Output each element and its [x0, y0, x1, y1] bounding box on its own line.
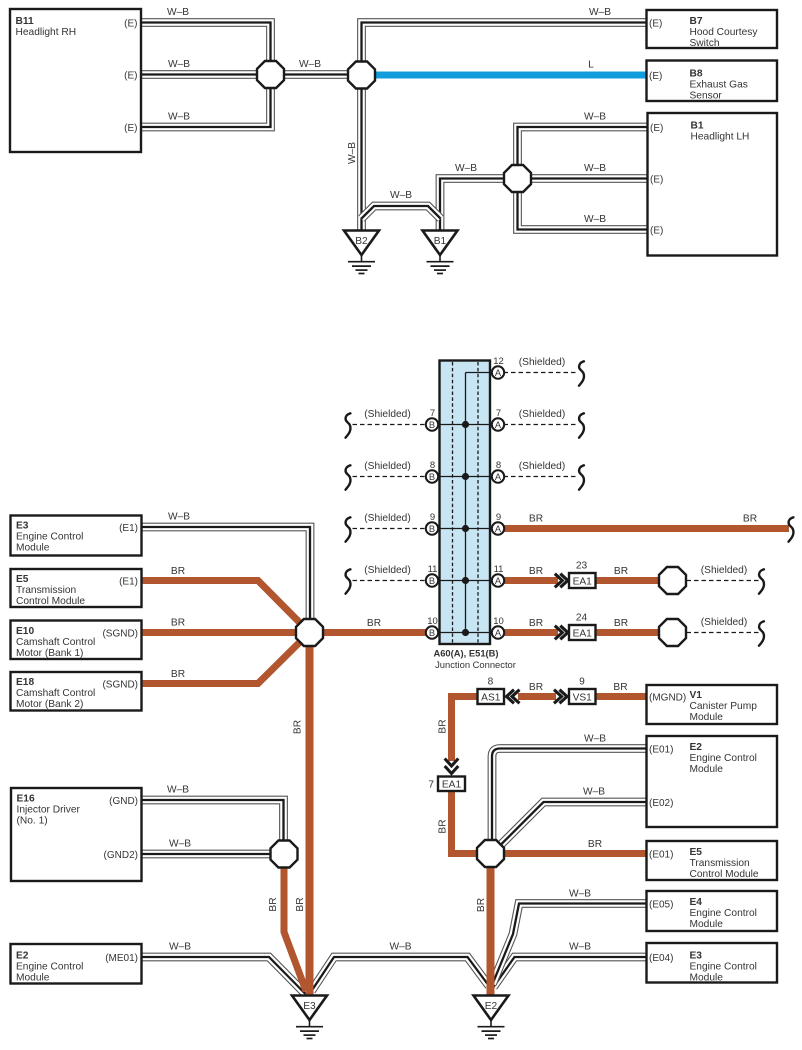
svg-text:W–B: W–B [455, 163, 477, 174]
connector VS1 pin 9 [554, 690, 567, 704]
wire BR connector EA1-7 to splice S6 [452, 790, 480, 854]
svg-text:(E01): (E01) [649, 744, 673, 755]
svg-text:(GND2): (GND2) [104, 850, 138, 861]
svg-text:E2: E2 [16, 951, 29, 962]
svg-text:(E04): (E04) [649, 953, 673, 964]
svg-text:Sensor: Sensor [690, 91, 723, 102]
ground E3 [292, 996, 327, 1039]
wire BR junction connector A9 to right edge [504, 525, 790, 532]
wire W-B ground E3 to ground E2 [312, 957, 490, 991]
svg-text:BR: BR [171, 669, 185, 680]
wire BR splice S6 down to ground E2 [487, 866, 495, 996]
component V1 Canister Pump Module [647, 685, 778, 724]
svg-text:V1: V1 [690, 690, 703, 701]
wire W-B link ground B2 to ground B1 [362, 206, 441, 219]
component B11 Headlight RH [10, 9, 141, 152]
svg-text:11: 11 [428, 564, 438, 575]
wire W-B E16 (GND2) to splice S5 [142, 853, 272, 855]
wire W-B splice S2 to B7 (E) [362, 23, 648, 62]
shielded lead after splice row 632 [687, 617, 765, 646]
svg-text:B: B [429, 472, 435, 482]
wire W-B E3 (E1) to splice S4 [142, 527, 311, 620]
junction connector pin B9 [426, 512, 438, 535]
svg-text:(SGND): (SGND) [102, 679, 138, 690]
svg-text:Module: Module [16, 543, 50, 554]
junction connector pin B10 [426, 616, 438, 639]
svg-text:Engine Control: Engine Control [16, 962, 83, 973]
svg-text:E2: E2 [485, 1001, 498, 1012]
svg-text:E3: E3 [303, 1001, 316, 1012]
component E2 Engine Control Module right [647, 736, 778, 827]
shielded lead right row 424 [504, 409, 585, 438]
svg-text:BR: BR [743, 514, 757, 525]
svg-text:BR: BR [367, 618, 381, 629]
ground B1 [423, 231, 458, 274]
splice S8 [659, 619, 686, 646]
connector EA1 vertical [438, 777, 465, 792]
wire BR junction connector A11 to connector EA1-23 [504, 577, 559, 584]
shielded lead left row 580 [346, 565, 427, 594]
wire W-B splice S1 to splice S2 [284, 74, 349, 76]
svg-text:BR: BR [171, 566, 185, 577]
connector EA1 pin 23 [555, 574, 568, 588]
junction connector pin A8 [492, 460, 504, 483]
junction connector pin B8 [426, 460, 438, 483]
wire W-B E2 (E02) to splice S6 [500, 802, 647, 846]
wire BR splice S5 down to ground E3 [284, 868, 306, 992]
shielded lead left row 476 [346, 461, 427, 490]
svg-text:Switch: Switch [690, 38, 720, 49]
svg-text:BR: BR [614, 618, 628, 629]
wire BR connector VS1 to connector AS1 [518, 693, 556, 700]
svg-text:Transmission: Transmission [16, 585, 76, 596]
connector EA1 pin 7 [445, 759, 459, 774]
svg-text:(MGND): (MGND) [649, 692, 686, 703]
ground E2 [474, 996, 509, 1039]
splice S7 [659, 567, 686, 594]
svg-text:(E): (E) [650, 174, 663, 185]
svg-text:(E): (E) [124, 18, 137, 29]
svg-text:10: 10 [427, 616, 438, 627]
component E3 Engine Control Module [11, 516, 142, 556]
svg-text:W–B: W–B [569, 889, 591, 900]
wire W-B ground E2 to E3 (E04) [494, 957, 648, 987]
svg-text:10: 10 [493, 616, 504, 627]
svg-text:B: B [429, 524, 435, 534]
junction connector pin B7 [426, 408, 438, 431]
svg-text:Injector Driver: Injector Driver [17, 805, 81, 816]
connector EA1 row 11 [569, 573, 596, 588]
svg-text:Engine Control: Engine Control [690, 962, 757, 973]
junction connector pin A10 [492, 616, 504, 639]
svg-text:BR: BR [438, 719, 449, 733]
svg-text:BR: BR [588, 839, 602, 850]
wire BR E10 (SGND) to splice S4 [142, 629, 310, 636]
svg-text:Module: Module [690, 919, 724, 930]
svg-text:(E): (E) [650, 123, 663, 134]
svg-text:A: A [495, 368, 502, 378]
svg-text:7: 7 [430, 408, 435, 419]
svg-text:(E): (E) [124, 123, 137, 134]
svg-text:(E): (E) [124, 70, 137, 81]
svg-text:Canister Pump: Canister Pump [690, 701, 758, 712]
svg-text:W–B: W–B [347, 142, 358, 164]
svg-text:E3: E3 [690, 951, 703, 962]
svg-text:8: 8 [488, 677, 494, 688]
svg-text:Exhaust Gas: Exhaust Gas [690, 80, 748, 91]
svg-text:7: 7 [496, 408, 501, 419]
svg-text:(ME01): (ME01) [105, 953, 138, 964]
svg-text:BR: BR [293, 720, 304, 734]
svg-text:W–B: W–B [583, 787, 605, 798]
svg-text:EA1: EA1 [442, 780, 462, 791]
svg-text:W–B: W–B [584, 163, 606, 174]
wire W-B B11 (E) row1 to splice S1 [141, 23, 271, 62]
svg-text:Module: Module [690, 973, 724, 984]
svg-text:L: L [588, 60, 594, 71]
svg-text:A: A [495, 524, 502, 534]
svg-text:(SGND): (SGND) [102, 628, 138, 639]
junction connector pin A11 [492, 564, 504, 587]
svg-text:B1: B1 [691, 121, 704, 132]
svg-text:W–B: W–B [167, 7, 189, 18]
svg-text:8: 8 [430, 460, 435, 471]
svg-text:W–B: W–B [169, 839, 191, 850]
svg-text:W–B: W–B [390, 190, 412, 201]
shielded lead right row 476 [504, 461, 585, 490]
svg-text:BR: BR [529, 618, 543, 629]
svg-text:B8: B8 [690, 69, 703, 80]
svg-text:A: A [495, 576, 502, 586]
wire W-B E2 (E01) to splice S6 [492, 749, 647, 842]
svg-text:W–B: W–B [168, 59, 190, 70]
svg-text:(E02): (E02) [649, 798, 673, 809]
svg-text:Module: Module [690, 764, 724, 775]
svg-text:E10: E10 [16, 626, 34, 637]
svg-text:BR: BR [476, 898, 487, 912]
wire W-B splice S3 to B1 (E) row3 [518, 192, 649, 230]
component E16 Injector Driver No1 [11, 788, 142, 881]
connector EA1 pin 24 [555, 626, 568, 640]
svg-text:A: A [495, 472, 502, 482]
component B7 Hood Courtesy Switch [647, 10, 778, 49]
junction connector pin A12 [492, 356, 504, 379]
component E2 Engine Control Module left [11, 944, 142, 984]
svg-text:Headlight RH: Headlight RH [16, 27, 77, 38]
svg-text:(E1): (E1) [119, 523, 138, 534]
svg-text:(Shielded): (Shielded) [519, 409, 565, 420]
connector AS1 [478, 689, 505, 704]
junction connector A60(A)/E51(B) body [438, 361, 493, 645]
svg-text:Hood Courtesy: Hood Courtesy [690, 27, 759, 38]
svg-text:BR: BR [268, 897, 279, 911]
svg-text:W–B: W–B [589, 7, 611, 18]
svg-text:Motor (Bank 1): Motor (Bank 1) [16, 648, 83, 659]
svg-text:B11: B11 [16, 16, 34, 27]
svg-text:Control Module: Control Module [16, 596, 85, 607]
svg-text:BR: BR [613, 682, 627, 693]
svg-text:Control Module: Control Module [690, 869, 759, 880]
wire BR connector EA1-24 to splice S8 [596, 629, 662, 636]
svg-text:E16: E16 [17, 794, 35, 805]
wire BR junction connector A10 to connector EA1-24 [504, 629, 559, 636]
wire BR E5 (E1) to splice S4 [142, 581, 310, 633]
component E10 Camshaft Control Motor Bank1 [11, 621, 142, 660]
svg-text:B: B [429, 628, 435, 638]
svg-text:Engine Control: Engine Control [16, 532, 83, 543]
ground B2 [344, 231, 379, 274]
svg-text:BR: BR [438, 819, 449, 833]
svg-text:(Shielded): (Shielded) [701, 565, 747, 576]
svg-text:AS1: AS1 [481, 692, 501, 703]
svg-text:Headlight LH: Headlight LH [691, 132, 750, 143]
svg-text:9: 9 [579, 677, 585, 688]
svg-text:E2: E2 [690, 742, 703, 753]
svg-text:W–B: W–B [569, 942, 591, 953]
svg-text:E18: E18 [16, 677, 34, 688]
component E3 Engine Control Module right [647, 943, 778, 984]
wire W-B splice S3 to B1 (E) row2 [531, 178, 648, 180]
svg-text:7: 7 [428, 780, 434, 791]
svg-text:9: 9 [496, 512, 501, 523]
svg-text:W–B: W–B [169, 942, 191, 953]
svg-text:EA1: EA1 [573, 576, 593, 587]
svg-text:24: 24 [576, 613, 588, 624]
wire BR splice S4 down to ground E3 [306, 644, 314, 996]
wire W-B B11 (E) row2 to splice S1 [141, 74, 258, 76]
wire W-B splice S3 to ground B1 [440, 179, 505, 232]
svg-text:Camshaft Control: Camshaft Control [16, 637, 95, 648]
svg-text:Module: Module [690, 712, 724, 723]
svg-text:(Shielded): (Shielded) [701, 617, 747, 628]
svg-text:W–B: W–B [389, 942, 411, 953]
svg-text:Junction Connector: Junction Connector [435, 659, 516, 670]
component E18 Camshaft Control Motor Bank2 [11, 672, 142, 711]
svg-text:Engine Control: Engine Control [690, 753, 757, 764]
svg-text:9: 9 [430, 512, 435, 523]
component E5 Transmission Control Module [11, 569, 142, 607]
connector VS1 [569, 689, 596, 704]
connector EA1 row 10 [569, 625, 596, 640]
svg-text:A60(A), E51(B): A60(A), E51(B) [433, 648, 498, 659]
svg-text:BR: BR [614, 566, 628, 577]
svg-text:E3: E3 [16, 521, 29, 532]
svg-text:W–B: W–B [584, 214, 606, 225]
splice S1 [257, 61, 284, 88]
junction connector pin A9 [492, 512, 504, 535]
wire BR splice S6 to E5 (E01) [502, 850, 647, 857]
component B1 Headlight LH [648, 113, 778, 256]
svg-text:(GND): (GND) [109, 796, 138, 807]
svg-text:VS1: VS1 [573, 692, 593, 703]
svg-text:B: B [429, 420, 435, 430]
splice S4 [296, 619, 323, 646]
svg-text:W–B: W–B [584, 734, 606, 745]
svg-text:Camshaft Control: Camshaft Control [16, 688, 95, 699]
svg-text:E4: E4 [690, 897, 703, 908]
svg-text:B: B [429, 576, 435, 586]
svg-text:Module: Module [16, 973, 50, 984]
wire BR V1 (MGND) to connector VS1 [596, 693, 648, 700]
svg-text:(E): (E) [650, 225, 663, 236]
svg-text:Engine Control: Engine Control [690, 908, 757, 919]
splice S3 [504, 165, 531, 192]
svg-text:BR: BR [529, 566, 543, 577]
wire BR row 9 end squiggle [789, 517, 794, 541]
svg-text:12: 12 [493, 356, 504, 367]
svg-text:Motor (Bank 2): Motor (Bank 2) [16, 699, 83, 710]
wire BR splice S4 to junction connector B10 [323, 629, 427, 636]
wire BR connector AS1 down to connector EA1-7 [452, 697, 478, 762]
svg-text:BR: BR [529, 682, 543, 693]
svg-text:A: A [495, 628, 502, 638]
svg-text:B7: B7 [690, 16, 703, 27]
svg-text:W–B: W–B [168, 112, 190, 123]
shielded lead left row 528 [346, 513, 427, 542]
svg-text:W–B: W–B [584, 112, 606, 123]
splice S2 [348, 62, 375, 89]
svg-text:(Shielded): (Shielded) [519, 461, 565, 472]
wire W-B E16 (GND) to splice S5 [142, 800, 284, 842]
svg-text:(E01): (E01) [649, 849, 673, 860]
wire W-B splice S3 to B1 (E) row1 [518, 127, 649, 166]
shielded lead left row 424 [346, 409, 427, 438]
splice S5 [271, 841, 298, 868]
svg-text:(Shielded): (Shielded) [364, 409, 410, 420]
svg-text:(Shielded): (Shielded) [519, 357, 565, 368]
svg-text:W–B: W–B [299, 59, 321, 70]
svg-text:(E05): (E05) [649, 899, 673, 910]
junction connector pin A7 [492, 408, 504, 431]
svg-text:23: 23 [576, 561, 588, 572]
wire BR connector EA1-23 to splice S7 [596, 577, 662, 584]
svg-text:(E): (E) [649, 18, 662, 29]
svg-text:(E1): (E1) [119, 576, 138, 587]
wire BR E18 (SGND) to splice S4 [142, 633, 310, 684]
svg-text:B2: B2 [355, 236, 368, 247]
wire W-B splice S2 down to ground B2 [361, 88, 363, 231]
svg-text:Transmission: Transmission [690, 858, 750, 869]
component E4 Engine Control Module [647, 891, 778, 931]
component B8 Exhaust Gas Sensor [647, 61, 778, 102]
splice S6 [477, 840, 504, 867]
svg-text:(No. 1): (No. 1) [17, 816, 48, 827]
svg-text:BR: BR [529, 514, 543, 525]
svg-text:E5: E5 [690, 847, 703, 858]
svg-text:BR: BR [171, 618, 185, 629]
svg-text:(Shielded): (Shielded) [364, 565, 410, 576]
component E5 Transmission Control Module right [647, 841, 778, 880]
svg-text:(Shielded): (Shielded) [364, 461, 410, 472]
junction connector pin B11 [426, 564, 438, 587]
junction connector caption [433, 648, 515, 671]
shielded lead after splice row 580 [687, 565, 765, 594]
wire L (blue) splice to B8 [375, 72, 648, 79]
svg-text:(E): (E) [649, 71, 662, 82]
svg-text:EA1: EA1 [573, 628, 593, 639]
svg-text:E5: E5 [16, 574, 29, 585]
svg-text:B1: B1 [434, 236, 447, 247]
wire W-B E2 (ME01) to ground E3 [142, 957, 306, 994]
svg-text:11: 11 [494, 564, 504, 575]
svg-text:A: A [495, 420, 502, 430]
svg-text:W–B: W–B [167, 785, 189, 796]
svg-text:8: 8 [496, 460, 501, 471]
wire W-B E4 (E05) to ground E2 [493, 904, 648, 985]
svg-text:BR: BR [295, 897, 306, 911]
wire W-B B11 (E) row3 to splice S1 [141, 88, 271, 127]
shielded lead right row 372 [504, 357, 585, 386]
svg-text:(Shielded): (Shielded) [364, 513, 410, 524]
svg-text:W–B: W–B [168, 512, 190, 523]
